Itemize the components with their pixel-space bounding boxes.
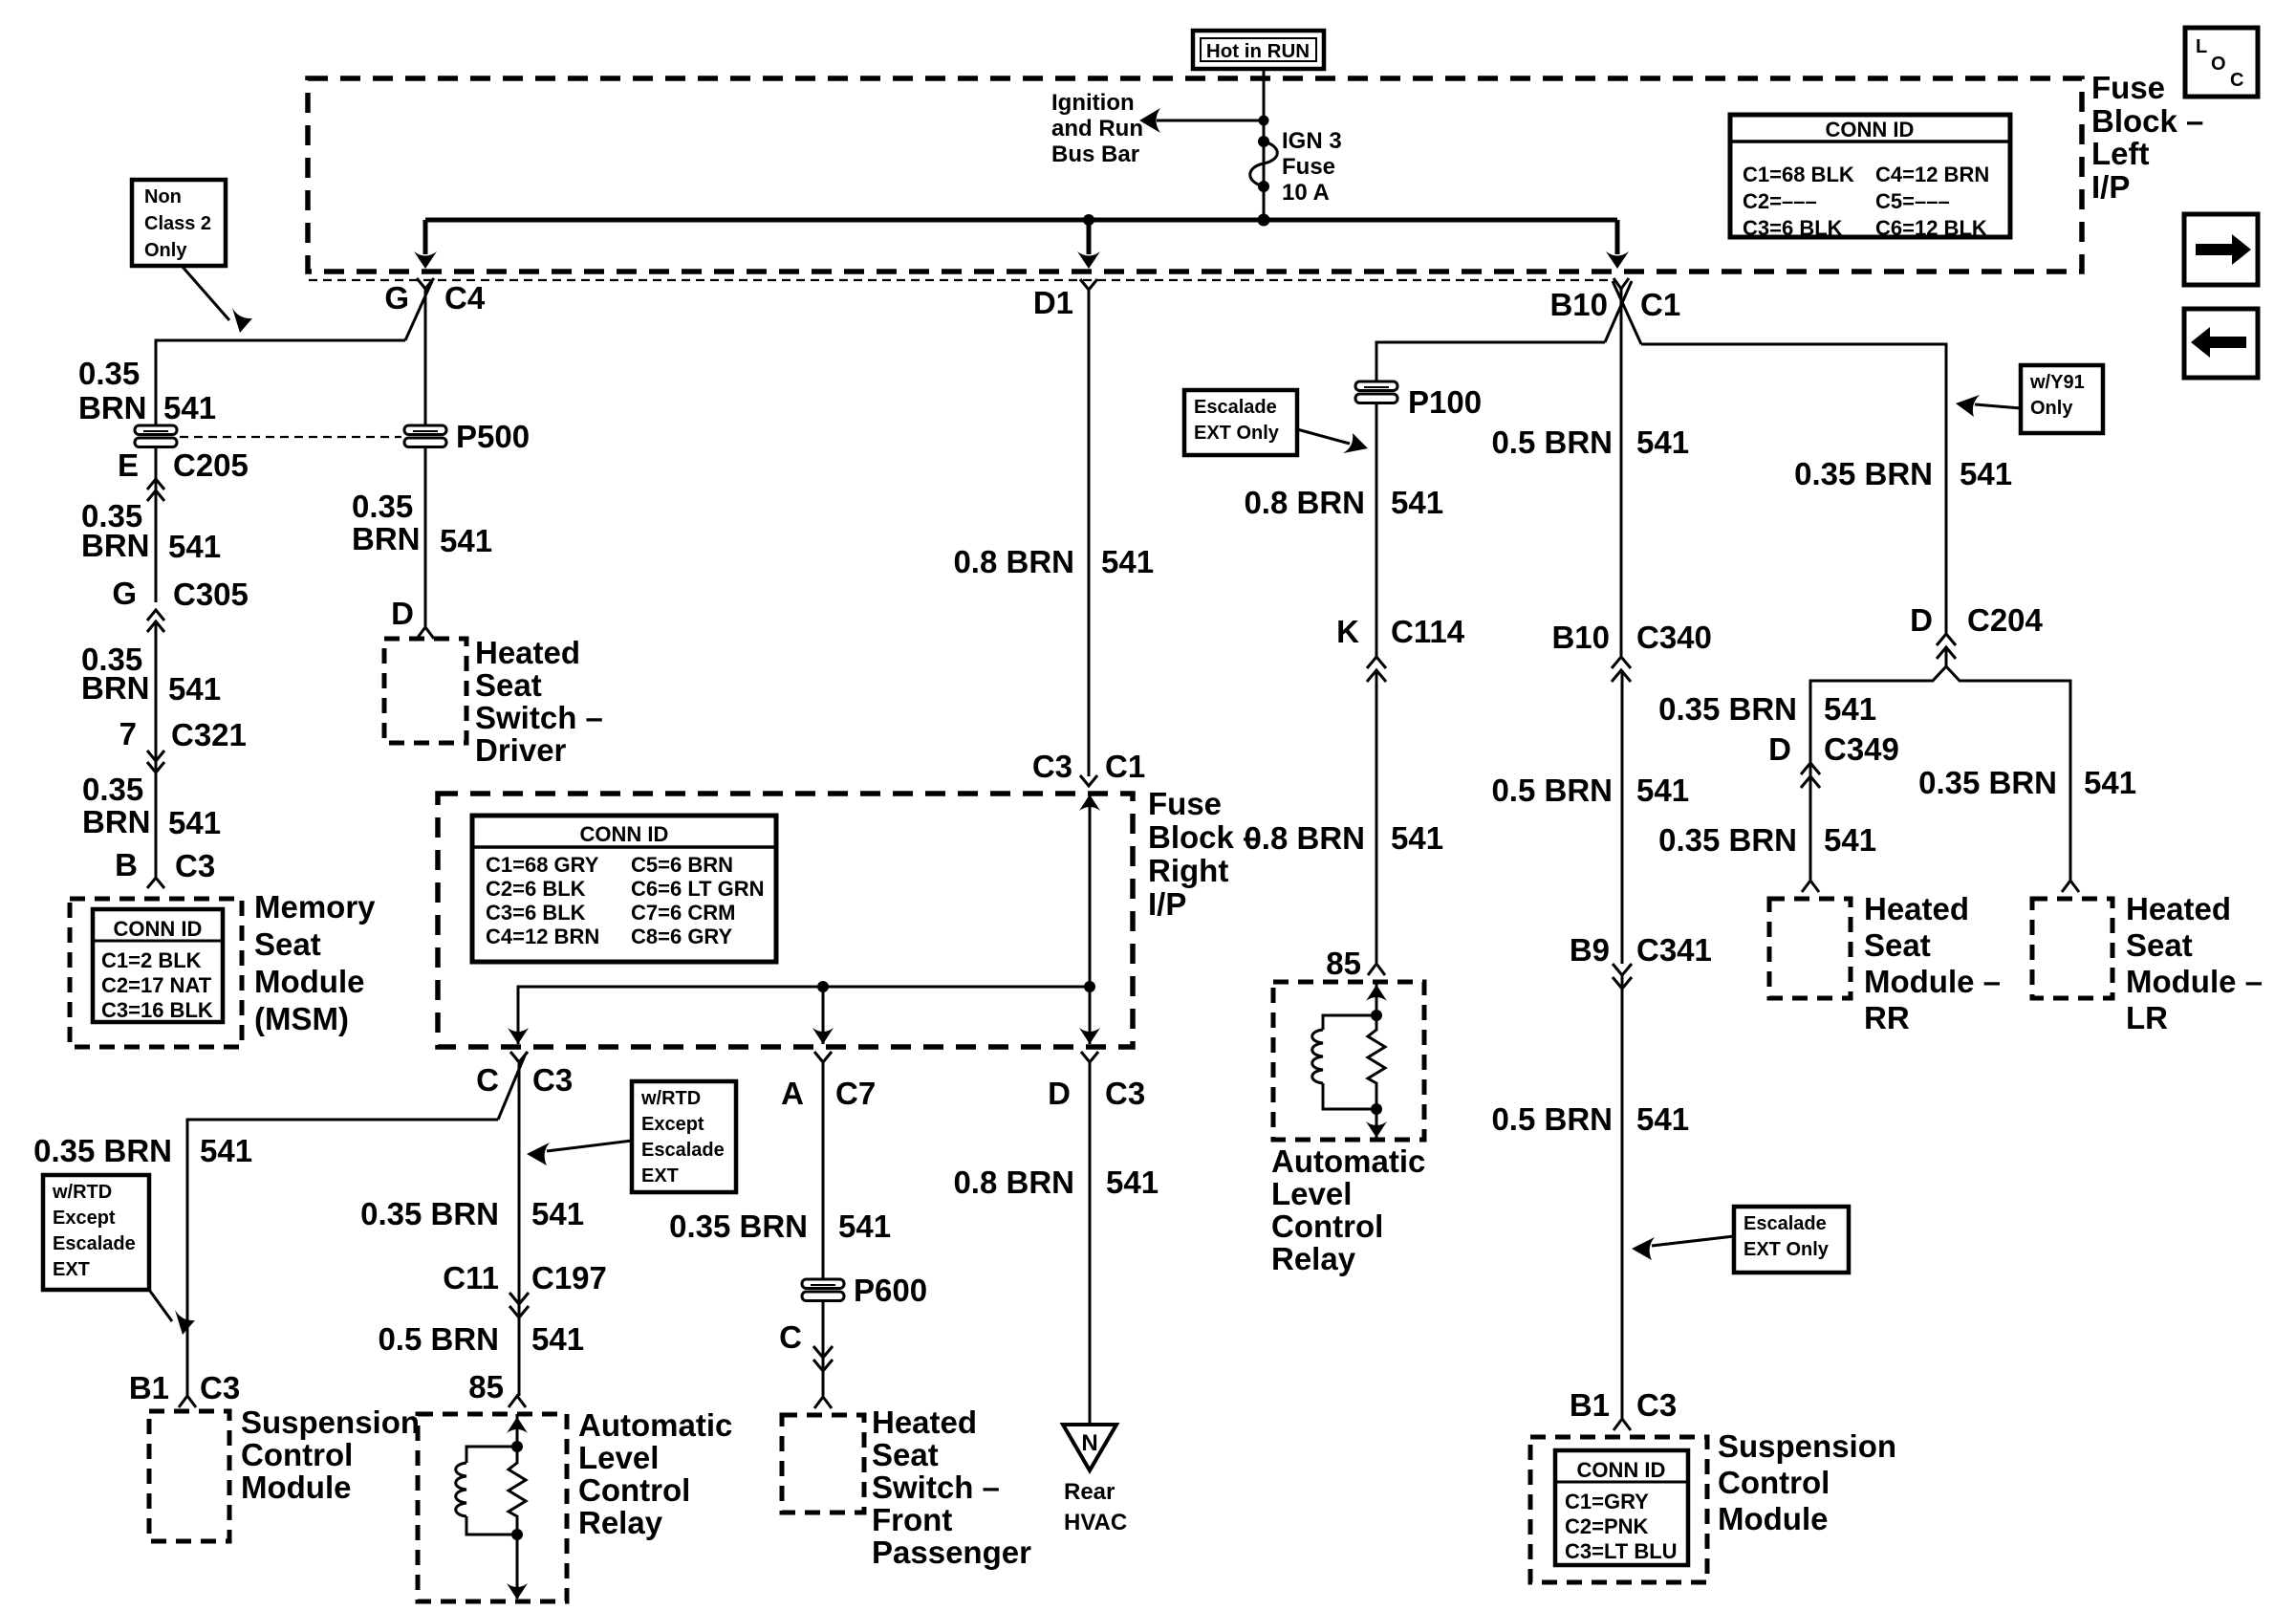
connector C204 chevrons up bbox=[1937, 634, 1956, 659]
svg-text:I/P: I/P bbox=[2091, 169, 2130, 205]
svg-text:B9: B9 bbox=[1570, 932, 1610, 968]
svg-text:0.5 BRN: 0.5 BRN bbox=[1491, 425, 1613, 460]
svg-text:Driver: Driver bbox=[475, 732, 567, 768]
svg-text:C204: C204 bbox=[1967, 602, 2044, 638]
svg-text:C2=17 NAT: C2=17 NAT bbox=[101, 973, 212, 997]
svg-text:C2=–––: C2=––– bbox=[1743, 189, 1817, 213]
svg-text:Control: Control bbox=[241, 1437, 353, 1472]
svg-text:C3=6 BLK: C3=6 BLK bbox=[486, 901, 586, 925]
svg-text:0.8 BRN: 0.8 BRN bbox=[953, 1165, 1074, 1200]
svg-text:C114: C114 bbox=[1391, 614, 1465, 649]
pin arrow into LR module bbox=[2062, 881, 2079, 892]
svg-text:Except: Except bbox=[53, 1208, 116, 1229]
wire drop to D1 bbox=[1077, 214, 1100, 269]
callout Escalade EXT Only (P100) bbox=[1184, 390, 1368, 455]
svg-text:Left: Left bbox=[2091, 136, 2150, 171]
svg-text:A: A bbox=[781, 1076, 804, 1111]
fuse IGN 3 10A bbox=[1250, 136, 1278, 192]
svg-text:Heated: Heated bbox=[2126, 891, 2231, 926]
svg-text:C8=6 GRY: C8=6 GRY bbox=[631, 925, 733, 948]
svg-text:C197: C197 bbox=[531, 1260, 607, 1295]
wire below C205 bbox=[155, 447, 158, 602]
svg-text:(MSM): (MSM) bbox=[254, 1001, 349, 1036]
svg-text:0.35: 0.35 bbox=[82, 772, 143, 807]
connector C205 grommet bbox=[135, 425, 177, 447]
svg-text:Level: Level bbox=[1271, 1176, 1352, 1211]
svg-text:C341: C341 bbox=[1636, 932, 1712, 968]
label Heated Seat Switch - Front Passenger bbox=[872, 1404, 1031, 1570]
svg-text:Relay: Relay bbox=[578, 1505, 663, 1540]
connector D1 fork bbox=[1033, 279, 1097, 320]
label Heated Seat Switch - Driver bbox=[475, 635, 603, 768]
svg-text:Seat: Seat bbox=[475, 667, 542, 703]
label G C305 bbox=[112, 576, 249, 612]
svg-text:0.5 BRN: 0.5 BRN bbox=[378, 1321, 499, 1357]
callout w/RTD Except Escalade EXT (left) bbox=[43, 1175, 195, 1335]
svg-text:C6=6 LT GRN: C6=6 LT GRN bbox=[631, 877, 765, 901]
pin arrow into relay left bbox=[509, 1396, 526, 1407]
pin arrow into RR module bbox=[1802, 881, 1819, 892]
svg-text:Seat: Seat bbox=[2126, 927, 2193, 963]
svg-text:w/RTD: w/RTD bbox=[640, 1088, 701, 1109]
svg-text:and Run: and Run bbox=[1051, 116, 1143, 142]
svg-text:C3: C3 bbox=[532, 1062, 573, 1098]
svg-text:C1=68 GRY: C1=68 GRY bbox=[486, 853, 599, 877]
label Automatic Level Control Relay (left) bbox=[578, 1407, 732, 1540]
label 0.35 BRN 541 (above MSM) bbox=[82, 772, 221, 840]
svg-text:C1=2 BLK: C1=2 BLK bbox=[101, 948, 202, 972]
svg-text:Suspension: Suspension bbox=[1718, 1428, 1896, 1464]
svg-text:w/RTD: w/RTD bbox=[52, 1182, 112, 1203]
svg-text:0.35 BRN: 0.35 BRN bbox=[33, 1133, 172, 1168]
connector chevrons down (below P600) bbox=[813, 1346, 833, 1371]
svg-text:541: 541 bbox=[2084, 765, 2136, 800]
wire from Hot in RUN down to bus bbox=[1263, 69, 1266, 220]
svg-text:B10: B10 bbox=[1551, 620, 1610, 655]
svg-text:B1: B1 bbox=[1570, 1387, 1610, 1423]
svg-text:C2=PNK: C2=PNK bbox=[1565, 1514, 1649, 1538]
svg-text:IGN 3: IGN 3 bbox=[1282, 128, 1342, 154]
connector B10 C1 X fork bbox=[1549, 278, 1680, 344]
svg-text:D: D bbox=[1768, 731, 1791, 767]
label Automatic Level Control Relay (right) bbox=[1271, 1143, 1425, 1276]
suspension control module box (left) bbox=[149, 1411, 229, 1541]
label IGN 3 Fuse 10 A bbox=[1282, 128, 1342, 206]
wire C340 down to C341 bbox=[1621, 670, 1624, 964]
svg-text:0.5 BRN: 0.5 BRN bbox=[1491, 773, 1613, 808]
connector C321 chevrons down bbox=[147, 751, 164, 773]
svg-text:Escalade: Escalade bbox=[1194, 397, 1277, 418]
CONN ID table (right I/P) bbox=[472, 816, 776, 962]
svg-text:C3: C3 bbox=[1032, 749, 1072, 784]
connector C341 chevrons down bbox=[1613, 964, 1632, 989]
relay internals right bbox=[1312, 982, 1387, 1138]
connector P100 grommet bbox=[1355, 381, 1482, 420]
svg-text:C4: C4 bbox=[444, 280, 486, 316]
label C11 C197 bbox=[443, 1260, 607, 1295]
svg-text:85: 85 bbox=[468, 1369, 504, 1404]
wire D1 down to C3/C1 bbox=[1088, 290, 1091, 776]
label K C114 bbox=[1336, 614, 1465, 649]
svg-text:Only: Only bbox=[144, 240, 187, 261]
svg-text:Memory: Memory bbox=[254, 889, 376, 925]
wire C341 down to suspension right bbox=[1621, 975, 1624, 1418]
svg-text:C7: C7 bbox=[835, 1076, 876, 1111]
label 0.8 BRN 541 (rear hvac wire) bbox=[953, 1165, 1159, 1200]
connector C349 chevrons up bbox=[1801, 763, 1820, 788]
label 0.35 BRN 541 (RR wire) bbox=[1658, 822, 1876, 858]
label Suspension Control Module (right) bbox=[1718, 1428, 1896, 1536]
wire drop to B10 bbox=[1606, 220, 1629, 269]
svg-text:541: 541 bbox=[1391, 820, 1443, 856]
svg-text:0.35 BRN: 0.35 BRN bbox=[1658, 691, 1797, 727]
svg-text:Fuse: Fuse bbox=[1148, 786, 1222, 821]
svg-text:C: C bbox=[476, 1062, 499, 1098]
label B10 C340 bbox=[1551, 620, 1711, 655]
svg-text:P500: P500 bbox=[456, 419, 530, 454]
nav box right arrow bbox=[2184, 214, 2258, 285]
wire ignition bus bar arrow bbox=[1139, 108, 1264, 133]
svg-text:541: 541 bbox=[1636, 773, 1689, 808]
callout w/Y91 Only bbox=[1956, 365, 2103, 433]
wire horizontal inside right block bbox=[508, 981, 1095, 1044]
label 0.35 BRN 541 (w/Y91 wire) bbox=[1794, 456, 2012, 491]
label B9 C341 bbox=[1570, 932, 1712, 968]
LOC box bbox=[2185, 28, 2258, 97]
svg-text:Suspension: Suspension bbox=[241, 1404, 420, 1440]
wire drop to C4 bbox=[414, 220, 437, 269]
svg-text:Heated: Heated bbox=[1864, 891, 1969, 926]
wire branch A drop bbox=[812, 981, 834, 1044]
svg-text:C4=12 BRN: C4=12 BRN bbox=[486, 925, 599, 948]
wire A C7 down to P600 bbox=[822, 1062, 825, 1279]
svg-text:CONN ID: CONN ID bbox=[1826, 118, 1915, 142]
svg-text:Passenger: Passenger bbox=[872, 1535, 1031, 1570]
svg-text:BRN: BRN bbox=[81, 528, 150, 563]
CONN ID table (MSM) bbox=[93, 909, 223, 1022]
svg-text:Module: Module bbox=[254, 964, 364, 999]
svg-text:C3=LT BLU: C3=LT BLU bbox=[1565, 1539, 1678, 1563]
svg-text:541: 541 bbox=[440, 523, 492, 558]
svg-text:Level: Level bbox=[578, 1440, 659, 1475]
wire to P100 branch bbox=[1376, 342, 1605, 391]
svg-text:LR: LR bbox=[2126, 1000, 2168, 1035]
svg-text:D: D bbox=[1910, 602, 1933, 638]
svg-text:85: 85 bbox=[1326, 946, 1361, 981]
wire below P100 bbox=[1375, 403, 1378, 658]
svg-text:EXT: EXT bbox=[53, 1259, 90, 1280]
connector P500 grommet bbox=[404, 419, 530, 454]
connector P600 grommet bbox=[802, 1273, 927, 1308]
svg-text:Module –: Module – bbox=[2126, 964, 2263, 999]
svg-text:EXT: EXT bbox=[641, 1165, 679, 1186]
svg-text:0.5 BRN: 0.5 BRN bbox=[1491, 1101, 1613, 1137]
label 0.8 BRN 541 (below C114) bbox=[1244, 820, 1443, 856]
svg-text:0.35 BRN: 0.35 BRN bbox=[360, 1196, 499, 1231]
heated seat module RR box bbox=[1769, 899, 1851, 998]
svg-text:L: L bbox=[2196, 36, 2207, 57]
svg-text:Switch –: Switch – bbox=[475, 700, 603, 735]
relay internals left bbox=[456, 1414, 528, 1600]
label Suspension Control Module (left) bbox=[241, 1404, 420, 1505]
svg-text:541: 541 bbox=[1391, 485, 1443, 520]
pin arrow into front passenger switch bbox=[814, 1397, 832, 1408]
Hot in RUN box bbox=[1193, 31, 1324, 69]
svg-text:C3: C3 bbox=[1636, 1387, 1677, 1423]
svg-text:Except: Except bbox=[641, 1114, 704, 1135]
CONN ID table (suspension right) bbox=[1555, 1450, 1688, 1565]
wire central B10 down bbox=[1620, 289, 1623, 656]
wire non-class-2 branch horizontal bbox=[156, 340, 405, 425]
svg-text:C4=12 BRN: C4=12 BRN bbox=[1875, 163, 1989, 186]
svg-text:0.35 BRN: 0.35 BRN bbox=[1918, 765, 2057, 800]
label 0.35 BRN 541 (A wire) bbox=[669, 1208, 891, 1244]
label Heated Seat Module - LR bbox=[2126, 891, 2263, 1035]
connector C340 chevrons up bbox=[1612, 657, 1631, 682]
svg-text:Escalade: Escalade bbox=[641, 1140, 725, 1161]
svg-text:Non: Non bbox=[144, 186, 182, 207]
pin arrow into relay right bbox=[1368, 964, 1385, 975]
svg-text:D: D bbox=[391, 596, 414, 631]
svg-text:C3: C3 bbox=[200, 1370, 240, 1405]
svg-text:C1: C1 bbox=[1105, 749, 1145, 784]
svg-text:B1: B1 bbox=[129, 1370, 169, 1405]
svg-text:w/Y91: w/Y91 bbox=[2029, 372, 2085, 393]
svg-text:541: 541 bbox=[168, 529, 221, 564]
svg-text:Control: Control bbox=[1718, 1465, 1830, 1500]
svg-text:E: E bbox=[118, 447, 139, 483]
label 0.35 BRN 541 (LR wire) bbox=[1918, 765, 2136, 800]
label B1 C3 (right suspension) bbox=[1570, 1387, 1677, 1423]
svg-text:541: 541 bbox=[1636, 425, 1689, 460]
fuse block - left I/P dashed outline bbox=[308, 78, 2082, 272]
heated seat switch front passenger box bbox=[782, 1415, 864, 1513]
heated seat module LR box bbox=[2032, 899, 2112, 998]
svg-text:Fuse: Fuse bbox=[1282, 154, 1335, 180]
connector A C7 fork bbox=[781, 1052, 876, 1111]
pin arrow into driver switch bbox=[417, 627, 434, 639]
fuse block - right I/P dashed outline bbox=[438, 794, 1133, 1047]
pin arrow into suspension right bbox=[1614, 1419, 1631, 1430]
label 0.35 BRN 541 (suspension wire) bbox=[33, 1133, 252, 1168]
label 0.35 BRN 541 (below P500) bbox=[352, 489, 492, 558]
svg-text:Escalade: Escalade bbox=[53, 1233, 136, 1254]
memory seat module box bbox=[70, 899, 242, 1047]
connector G C4 fork bbox=[384, 278, 486, 425]
svg-text:P600: P600 bbox=[854, 1273, 927, 1308]
wire C114 to relay right bbox=[1375, 670, 1378, 963]
svg-text:541: 541 bbox=[531, 1196, 584, 1231]
label Heated Seat Module - RR bbox=[1864, 891, 2001, 1035]
svg-text:C1: C1 bbox=[1640, 287, 1680, 322]
svg-text:CONN ID: CONN ID bbox=[1577, 1458, 1666, 1482]
svg-text:7: 7 bbox=[119, 716, 137, 751]
svg-text:Ignition: Ignition bbox=[1051, 90, 1135, 116]
connector C3 C1 fork into right fuse block bbox=[1032, 749, 1145, 786]
svg-text:Heated: Heated bbox=[475, 635, 580, 670]
connector C C3 fork bbox=[476, 1052, 573, 1120]
svg-text:HVAC: HVAC bbox=[1064, 1510, 1127, 1535]
svg-text:C340: C340 bbox=[1636, 620, 1712, 655]
svg-text:CONN ID: CONN ID bbox=[580, 822, 669, 846]
callout w/RTD Except Escalade EXT (C3) bbox=[527, 1081, 736, 1192]
junction ignition tap bbox=[1259, 116, 1269, 126]
bus wire inside fuse block bbox=[425, 218, 1617, 223]
svg-text:B: B bbox=[115, 847, 138, 882]
svg-text:Module –: Module – bbox=[1864, 964, 2001, 999]
connector C305 chevrons up bbox=[147, 610, 164, 632]
svg-text:C305: C305 bbox=[173, 577, 249, 612]
svg-text:Front: Front bbox=[872, 1502, 952, 1537]
wire P500 to driver switch bbox=[424, 447, 427, 626]
svg-text:K: K bbox=[1336, 614, 1359, 649]
svg-text:Control: Control bbox=[1271, 1208, 1383, 1244]
svg-text:CONN ID: CONN ID bbox=[114, 917, 203, 941]
label 7 C321 bbox=[119, 716, 247, 752]
label 0.8 BRN 541 (D1 wire) bbox=[953, 544, 1154, 579]
svg-text:C5=–––: C5=––– bbox=[1875, 189, 1950, 213]
svg-text:P100: P100 bbox=[1408, 384, 1482, 420]
svg-text:C205: C205 bbox=[173, 447, 249, 483]
svg-text:RR: RR bbox=[1864, 1000, 1910, 1035]
svg-text:Right: Right bbox=[1148, 853, 1228, 888]
svg-text:EXT Only: EXT Only bbox=[1194, 423, 1280, 444]
svg-text:C3: C3 bbox=[1105, 1076, 1145, 1111]
svg-text:541: 541 bbox=[838, 1208, 891, 1244]
label Rear HVAC bbox=[1064, 1479, 1127, 1535]
svg-text:Only: Only bbox=[2030, 398, 2073, 419]
label B C3 bbox=[115, 847, 215, 883]
svg-text:Seat: Seat bbox=[872, 1437, 939, 1472]
automatic level control relay box (right) bbox=[1273, 982, 1424, 1140]
label E C205 bbox=[118, 447, 249, 483]
svg-text:Rear: Rear bbox=[1064, 1479, 1115, 1505]
callout Non Class 2 Only bbox=[132, 180, 252, 333]
svg-text:O: O bbox=[2211, 54, 2226, 75]
label 0.5 BRN 541 (central) bbox=[1491, 425, 1689, 460]
svg-text:10 A: 10 A bbox=[1282, 180, 1330, 206]
svg-text:I/P: I/P bbox=[1148, 886, 1186, 922]
svg-text:Automatic: Automatic bbox=[1271, 1143, 1425, 1179]
suspension control module box (right) bbox=[1530, 1437, 1707, 1582]
label 0.35 BRN 541 (C349 above) bbox=[1658, 691, 1876, 727]
svg-text:C3=6 BLK: C3=6 BLK bbox=[1743, 216, 1843, 240]
pin arrow into suspension module left bbox=[179, 1396, 196, 1407]
label 0.35 BRN 541 (above C321) bbox=[81, 642, 221, 707]
svg-text:0.8 BRN: 0.8 BRN bbox=[953, 544, 1074, 579]
label Memory Seat Module (MSM) bbox=[254, 889, 376, 1036]
svg-text:C3: C3 bbox=[175, 848, 215, 883]
svg-text:Hot in RUN: Hot in RUN bbox=[1206, 40, 1310, 62]
wire below P600 bbox=[822, 1301, 825, 1396]
rear hvac triangle N bbox=[1063, 1425, 1116, 1470]
svg-text:541: 541 bbox=[1960, 456, 2012, 491]
svg-text:541: 541 bbox=[200, 1133, 252, 1168]
svg-text:Seat: Seat bbox=[254, 926, 321, 962]
svg-text:C11: C11 bbox=[443, 1260, 499, 1295]
label 0.35 BRN 541 (above C305) bbox=[81, 498, 221, 564]
connector C205 chevrons up bbox=[147, 479, 164, 501]
svg-text:0.8 BRN: 0.8 BRN bbox=[1244, 820, 1365, 856]
svg-text:541: 541 bbox=[163, 390, 216, 425]
svg-text:D: D bbox=[1048, 1076, 1071, 1111]
svg-text:541: 541 bbox=[1101, 544, 1154, 579]
svg-text:541: 541 bbox=[168, 805, 221, 840]
svg-text:G: G bbox=[384, 280, 409, 316]
label Fuse Block - Left I/P bbox=[2091, 70, 2203, 205]
connector C197 chevrons down bbox=[509, 1293, 529, 1317]
svg-text:Module: Module bbox=[1718, 1501, 1828, 1536]
svg-text:C: C bbox=[2230, 70, 2243, 91]
svg-text:C1=GRY: C1=GRY bbox=[1565, 1490, 1649, 1513]
svg-text:0.35: 0.35 bbox=[78, 356, 140, 391]
svg-text:C5=6 BRN: C5=6 BRN bbox=[631, 853, 733, 877]
svg-text:BRN: BRN bbox=[81, 670, 150, 706]
CONN ID table (left I/P) bbox=[1730, 115, 2010, 240]
wire vertical inside right block bbox=[1079, 794, 1100, 1044]
nav box left arrow bbox=[2184, 309, 2258, 378]
label 0.8 BRN 541 (P100 wire) bbox=[1244, 485, 1443, 520]
svg-text:Class 2: Class 2 bbox=[144, 213, 211, 234]
svg-text:541: 541 bbox=[531, 1321, 584, 1357]
svg-text:C321: C321 bbox=[171, 717, 247, 752]
svg-text:Relay: Relay bbox=[1271, 1241, 1356, 1276]
svg-text:BRN: BRN bbox=[78, 390, 147, 425]
svg-text:Control: Control bbox=[578, 1472, 690, 1508]
label D C204 bbox=[1910, 602, 2043, 638]
svg-text:Heated: Heated bbox=[872, 1404, 977, 1440]
svg-text:G: G bbox=[112, 576, 137, 611]
svg-text:541: 541 bbox=[1824, 691, 1876, 727]
svg-text:C6=12 BLK: C6=12 BLK bbox=[1875, 216, 1987, 240]
svg-text:C7=6 CRM: C7=6 CRM bbox=[631, 901, 735, 925]
connector C114 chevrons up bbox=[1367, 657, 1386, 682]
svg-text:Module: Module bbox=[241, 1469, 351, 1505]
svg-text:C349: C349 bbox=[1824, 731, 1899, 767]
svg-text:541: 541 bbox=[1824, 822, 1876, 858]
label D C349 bbox=[1768, 731, 1899, 767]
label 0.5 BRN 541 (below C340) bbox=[1491, 773, 1689, 808]
svg-text:0.35 BRN: 0.35 BRN bbox=[1658, 822, 1797, 858]
svg-text:C3=16 BLK: C3=16 BLK bbox=[101, 998, 213, 1022]
svg-text:N: N bbox=[1081, 1430, 1097, 1456]
callout Escalade EXT Only (bottom right) bbox=[1632, 1207, 1849, 1273]
svg-text:BRN: BRN bbox=[352, 521, 421, 556]
automatic level control relay box (left) bbox=[418, 1414, 567, 1601]
svg-text:541: 541 bbox=[1106, 1165, 1159, 1200]
svg-text:0.35 BRN: 0.35 BRN bbox=[669, 1208, 808, 1244]
svg-text:Block –: Block – bbox=[2091, 103, 2203, 139]
svg-text:B10: B10 bbox=[1549, 287, 1608, 322]
svg-text:541: 541 bbox=[168, 671, 221, 707]
label 0.5 BRN 541 (relay wire) bbox=[378, 1321, 584, 1357]
svg-text:0.35 BRN: 0.35 BRN bbox=[1794, 456, 1933, 491]
svg-text:EXT Only: EXT Only bbox=[1744, 1239, 1830, 1260]
svg-text:541: 541 bbox=[1636, 1101, 1689, 1137]
wire C3 down from C fork to ALC relay bbox=[518, 1062, 521, 1396]
dashed pairing line C205 to P500 bbox=[180, 436, 401, 438]
thin dashed connector line under fuse block bbox=[309, 279, 1614, 281]
heated seat switch driver box bbox=[384, 639, 466, 743]
wire to w/Y91 branch bbox=[1641, 344, 1946, 633]
svg-text:Seat: Seat bbox=[1864, 927, 1931, 963]
wire C C3 to suspension module (left) bbox=[187, 1120, 498, 1395]
svg-text:0.8 BRN: 0.8 BRN bbox=[1244, 485, 1365, 520]
fork to RR and LR bbox=[1810, 647, 2070, 880]
svg-text:C1=68 BLK: C1=68 BLK bbox=[1743, 163, 1854, 186]
label B1 C3 (left suspension) bbox=[129, 1370, 240, 1405]
svg-text:BRN: BRN bbox=[82, 804, 151, 839]
